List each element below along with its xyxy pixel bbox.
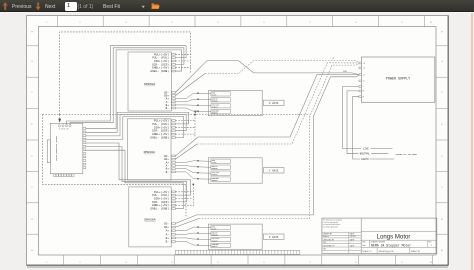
dashed control-group outline 2 (breakout board group) <box>43 115 310 217</box>
wire GND driver U2 to PSU <box>175 75 359 156</box>
top zone numbers <box>46 22 433 24</box>
svg-text:PUL+(+5V): PUL+(+5V) <box>154 119 169 123</box>
stepper driver U3 DM860A <box>129 187 176 247</box>
svg-text:GD+: GD+ <box>164 226 169 229</box>
top border zone ticks <box>57 16 424 27</box>
wire +5V breakout board terminal to driver U1 wrap <box>67 46 187 125</box>
net +5V bus of driver U1 (dashed stubs to group outline) <box>175 51 190 74</box>
breakout board (MACH3 BOB) <box>47 123 86 176</box>
net +5V bus of driver U3 (dashed) <box>175 184 193 207</box>
svg-text:Barbara: Barbara <box>323 235 329 238</box>
svg-text:B-: B- <box>166 241 170 244</box>
svg-text:ENBL+(+5V): ENBL+(+5V) <box>152 132 169 136</box>
svg-text:PUL- (PUL): PUL- (PUL) <box>152 122 169 126</box>
stepper driver U2 DM860A <box>128 119 176 181</box>
svg-text:A-: A- <box>166 233 170 236</box>
wires PUL/DIR/ENBL breakout board to driver U3 <box>86 143 191 209</box>
right zone letters <box>441 32 443 253</box>
arrow into breakout board +5V node <box>58 115 61 123</box>
svg-text:GND: GND <box>343 71 348 73</box>
svg-text:B+: B+ <box>166 237 170 240</box>
junction dot on +5V dashed net at driver U2 bus <box>194 111 197 116</box>
svg-text:GREEN: GREEN <box>212 179 219 182</box>
svg-text:WEIGHT(kg) 4.46: WEIGHT(kg) 4.46 <box>379 251 394 253</box>
svg-text:BLACK: BLACK <box>212 105 219 108</box>
svg-text:L: L <box>363 86 364 88</box>
wire LIVE PSU to mains <box>343 86 393 150</box>
svg-text:Longs Motor: Longs Motor <box>377 234 411 241</box>
svg-text:BLUE: BLUE <box>212 227 218 230</box>
svg-text:BROWN: BROWN <box>212 167 219 170</box>
svg-text:NEUTRAL: NEUTRAL <box>360 153 371 156</box>
svg-text:BLUE: BLUE <box>212 161 218 164</box>
svg-text:BLACK: BLACK <box>212 173 219 176</box>
svg-text:NEMA 34 Stepper Motor: NEMA 34 Stepper Motor <box>371 243 411 247</box>
svg-text:CHECKED BY: CHECKED BY <box>323 239 335 241</box>
svg-text:ENBL- (ENB): ENBL- (ENB) <box>151 69 170 73</box>
svg-text:DESIGNED BY: DESIGNED BY <box>323 245 336 247</box>
motor connector block Z axis <box>194 224 285 249</box>
svg-text:Y AXIS: Y AXIS <box>269 170 279 173</box>
svg-text:DRAWN BY: DRAWN BY <box>323 233 333 236</box>
junction dot on +5V dashed net at driver U3 bus <box>192 184 194 186</box>
svg-text:BLUE: BLUE <box>212 94 218 97</box>
right border zone ticks <box>436 46 448 234</box>
motor connector block X axis <box>194 90 285 115</box>
svg-text:POWER SUPPLY: POWER SUPPLY <box>386 78 410 82</box>
dashed control-group outline 1 (driver U1 group) <box>60 32 191 115</box>
svg-text:DOMESTIC VOLTAGE: DOMESTIC VOLTAGE <box>396 153 418 156</box>
left zone letters <box>31 32 33 253</box>
svg-text:BROWN: BROWN <box>212 100 219 103</box>
svg-text:BLACK: BLACK <box>212 239 219 242</box>
wires PUL/DIR/ENBL breakout board to driver U2 <box>86 112 189 139</box>
graphic scale bar <box>175 250 299 254</box>
svg-text:GREEN: GREEN <box>212 111 219 114</box>
wire +V driver U3 to PSU (dashed) <box>175 63 359 227</box>
svg-text:EARTH: EARTH <box>361 158 369 161</box>
net +5V bus of driver U2 (dashed) <box>175 115 195 139</box>
svg-text:Dmt: Dmt <box>362 244 366 247</box>
wire GND breakout board terminal to driver U1 wrap <box>70 48 184 125</box>
svg-text:LIVE: LIVE <box>363 148 369 151</box>
svg-text:ENBL- (ENB): ENBL- (ENB) <box>151 136 170 140</box>
svg-text:11/7/08: 11/7/08 <box>350 236 356 238</box>
svg-text:DIR+(+5V): DIR+(+5V) <box>154 125 169 129</box>
bottom zone numbers <box>46 262 433 264</box>
svg-text:B-: B- <box>166 171 170 174</box>
stepper driver U1 DM860A <box>128 52 175 111</box>
wire +V driver U2 to PSU (dashed) <box>175 63 359 159</box>
wire NEUTRAL PSU to mains <box>347 91 388 156</box>
wire GND driver U3 to PSU <box>175 75 359 224</box>
svg-text:A+: A+ <box>166 230 170 233</box>
title block <box>322 218 437 254</box>
svg-text:SCALE 1:1: SCALE 1:1 <box>362 250 371 253</box>
wire ENBL breakout board to driver U1 <box>86 50 182 129</box>
svg-text:Z AXIS: Z AXIS <box>269 236 279 239</box>
bottom border zone ticks <box>64 255 433 265</box>
svg-text:G: G <box>31 61 33 63</box>
svg-text:MACH3 BREAKOUT BOARD: MACH3 BREAKOUT BOARD <box>55 135 58 161</box>
wires motor phases driver U1 to X connector <box>175 93 193 111</box>
wire GND driver U1 to PSU <box>175 61 359 93</box>
svg-text:G +5V G +5V: G +5V G +5V <box>59 128 70 130</box>
svg-text:GD-: GD- <box>164 223 169 226</box>
svg-text:DM860A: DM860A <box>144 150 155 154</box>
svg-text:DM860A: DM860A <box>144 82 155 86</box>
svg-text:G: G <box>441 61 443 63</box>
svg-text:SIZE: SIZE <box>362 241 365 243</box>
svg-text:DM860A: DM860A <box>144 217 155 221</box>
svg-text:BROWN: BROWN <box>212 233 219 236</box>
svg-text:GREEN: GREEN <box>212 245 219 248</box>
power supply PSU <box>359 57 435 102</box>
wire +V driver U1 to PSU (dashed) <box>175 61 359 96</box>
svg-text:B-: B- <box>166 107 170 110</box>
svg-text:X AXIS: X AXIS <box>269 102 279 105</box>
svg-text:ENBL- (ENB): ENBL- (ENB) <box>151 207 170 211</box>
motor connector block Y axis <box>194 158 285 183</box>
wires motor phases driver U3 to Z connector <box>175 227 193 245</box>
svg-text:SHEET 1/1: SHEET 1/1 <box>411 251 420 253</box>
svg-text:DIR- (DIR): DIR- (DIR) <box>152 129 169 133</box>
wires motor phases driver U2 to Y connector <box>175 161 193 179</box>
wire EARTH PSU to mains <box>353 97 395 161</box>
drawing frame <box>39 27 437 255</box>
left border zone ticks <box>27 46 39 234</box>
